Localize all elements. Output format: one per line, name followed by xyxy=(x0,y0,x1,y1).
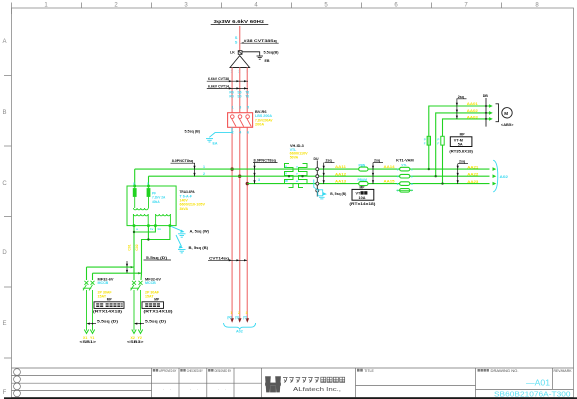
svg-text:AA01: AA01 xyxy=(467,102,478,106)
wire arrows out xyxy=(493,167,497,171)
svg-text:MP: MP xyxy=(460,133,466,137)
wire phase S xyxy=(239,68,241,320)
svg-text:R0: R0 xyxy=(229,95,233,99)
LBS labels xyxy=(255,110,273,126)
svg-text:B, 5sq (B): B, 5sq (B) xyxy=(330,192,347,196)
breaker MF32-6V left xyxy=(83,281,95,331)
svg-text:C01: C01 xyxy=(128,244,132,250)
svg-text:KT1-VAM: KT1-VAM xyxy=(396,159,414,163)
ground EA xyxy=(206,139,213,142)
breaker MF32-6V right xyxy=(130,281,142,331)
cable head terminal xyxy=(230,56,250,68)
motor M1 xyxy=(502,108,512,118)
svg-text:V: V xyxy=(285,172,287,176)
cable label CVT38 xyxy=(240,39,279,43)
left ruler ticks xyxy=(4,76,12,359)
svg-text:AA14: AA14 xyxy=(384,165,395,169)
svg-text:(RTx14x18): (RTx14x18) xyxy=(349,202,375,206)
title block labels xyxy=(153,369,573,391)
svg-text:15AT: 15AT xyxy=(98,294,107,298)
svg-text:(RTX14X18): (RTX14X18) xyxy=(144,310,174,314)
ground EB xyxy=(257,56,264,59)
breaker left labels xyxy=(98,278,115,302)
svg-text:SB60B21076A-T300: SB60B21076A-T300 xyxy=(494,389,571,398)
wire drop left branch xyxy=(86,267,88,280)
svg-text:MCCB: MCCB xyxy=(98,281,109,285)
svg-text:DRAWING NO.: DRAWING NO. xyxy=(491,369,519,373)
breaker right labels xyxy=(145,278,162,302)
fuse PBN xyxy=(359,167,368,171)
stub for 4th fuse xyxy=(397,189,414,191)
cable callout 6.6kV CVT38sq xyxy=(207,77,248,82)
node marks yellow xyxy=(230,311,247,315)
transformer labels xyxy=(180,190,206,211)
svg-text:U: U xyxy=(285,165,287,169)
svg-text:<SB3>: <SB3> xyxy=(127,340,145,344)
VT labels xyxy=(290,144,309,159)
svg-text:3φ3W 6.6kV 60Hz: 3φ3W 6.6kV 60Hz xyxy=(214,19,265,24)
svg-text:AA12: AA12 xyxy=(335,172,346,176)
node labels right branch xyxy=(131,336,142,340)
svg-text:.: . xyxy=(225,387,226,391)
svg-text:(S): (S) xyxy=(235,316,239,320)
svg-text:1n: 1n xyxy=(157,227,161,231)
wire VT earth cyan xyxy=(314,180,318,190)
svg-text:REV/MARK: REV/MARK xyxy=(554,369,573,373)
svg-text:F: F xyxy=(3,390,7,396)
svg-text:APPROVED BY: APPROVED BY xyxy=(159,369,177,373)
bottom black edge xyxy=(4,397,577,399)
wire tags yellow set1 xyxy=(335,165,346,184)
company logo xyxy=(265,376,281,392)
wire earth W cyan xyxy=(171,226,182,231)
wire risers xyxy=(429,106,490,169)
wire arrows to motor xyxy=(489,104,493,108)
svg-text:EB: EB xyxy=(265,59,270,63)
svg-text:1v: 1v xyxy=(150,227,154,231)
svg-text:15AT: 15AT xyxy=(145,294,154,298)
svg-text:40kA: 40kA xyxy=(152,200,160,204)
svg-text:1: 1 xyxy=(232,106,234,110)
svg-text:E: E xyxy=(2,321,6,327)
svg-text:F: F xyxy=(424,142,426,146)
VT winding right xyxy=(299,164,308,188)
wire arrows red xyxy=(230,318,234,323)
svg-text:AA13: AA13 xyxy=(335,180,346,184)
node phase numbers xyxy=(231,70,249,74)
wire tags yellow DB xyxy=(467,102,478,119)
node source label xyxy=(211,19,269,24)
svg-text:(R): (R) xyxy=(227,316,232,320)
svg-text:T0: T0 xyxy=(245,95,249,99)
cyan cable bundle bracket xyxy=(493,160,498,192)
svg-text:3: 3 xyxy=(239,106,241,110)
svg-text:(T): (T) xyxy=(243,316,247,320)
secondary terminals xyxy=(133,214,170,226)
cable callout 2sq #1 xyxy=(323,159,335,184)
svg-text:u: u xyxy=(136,227,138,231)
svg-text:S: S xyxy=(235,40,238,45)
svg-text:5.5sq (D): 5.5sq (D) xyxy=(97,319,119,323)
company name xyxy=(283,378,288,383)
svg-text:10A: 10A xyxy=(359,196,366,200)
svg-text:DB: DB xyxy=(483,94,489,98)
cable callout 2sq #2 xyxy=(372,159,383,184)
svg-text:.: . xyxy=(170,387,171,391)
svg-text:B: B xyxy=(2,110,6,116)
svg-text:6.6kV CVT38: 6.6kV CVT38 xyxy=(208,77,229,81)
svg-text:2: 2 xyxy=(238,311,240,315)
svg-text:3kVA: 3kVA xyxy=(180,207,189,211)
svg-text:DESIGNED BY: DESIGNED BY xyxy=(215,369,232,373)
svg-text:5.5sq (D): 5.5sq (D) xyxy=(145,319,167,323)
node u v n xyxy=(136,227,161,231)
svg-text:VT: VT xyxy=(356,192,362,196)
svg-text:TITLE: TITLE xyxy=(364,369,374,373)
VT winding left xyxy=(285,164,294,188)
wire L2 horizontal xyxy=(149,175,490,177)
node wire tags cyan xyxy=(229,91,249,99)
left ruler letters xyxy=(2,39,7,396)
svg-text:200A: 200A xyxy=(255,122,264,126)
staff cells verticals xyxy=(151,368,153,398)
transformer box xyxy=(127,186,176,226)
svg-text:.: . xyxy=(218,387,219,391)
svg-text:2sq: 2sq xyxy=(459,160,465,164)
revision rows left xyxy=(12,375,152,377)
svg-text:(RTX14X18): (RTX14X18) xyxy=(93,310,123,314)
cable callout 6.6kV CVT14sq xyxy=(207,84,248,89)
svg-text:PBAM: PBAM xyxy=(358,178,368,182)
node labels left branch xyxy=(83,336,94,340)
wire phase R xyxy=(231,68,233,320)
cable callout 2sq out xyxy=(457,160,468,184)
svg-text:.: . xyxy=(197,387,198,391)
wire drop to transformer V xyxy=(148,176,150,186)
svg-text:LK: LK xyxy=(230,51,235,55)
svg-text:3: 3 xyxy=(258,178,260,182)
secondary winding right xyxy=(156,214,171,216)
fuse riser3 xyxy=(441,136,444,145)
svg-text:W: W xyxy=(285,179,288,183)
svg-text:AA03: AA03 xyxy=(467,115,478,119)
wire incoming red xyxy=(239,26,241,51)
cable callout 5.5sq (D) left branch xyxy=(87,319,120,324)
svg-text:(RT35.6X18): (RT35.6X18) xyxy=(449,149,473,153)
wire w jumper xyxy=(134,226,155,232)
svg-text:.: . xyxy=(163,387,164,391)
svg-text:TRA3-6PA: TRA3-6PA xyxy=(180,190,195,194)
fuse PBAM xyxy=(359,182,368,186)
wire rail2 xyxy=(93,272,142,274)
svg-text:.: . xyxy=(190,387,191,391)
svg-text:B, 5sq (B): B, 5sq (B) xyxy=(189,246,209,250)
wire L3 horizontal xyxy=(247,183,489,185)
switch LBS BV-R6 xyxy=(228,113,253,128)
svg-text:AA15: AA15 xyxy=(384,180,395,184)
svg-text:S0: S0 xyxy=(237,95,241,99)
cable callout CVT14sq xyxy=(208,256,247,261)
svg-text:8.0PNCT8sq: 8.0PNCT8sq xyxy=(172,159,194,163)
fuse PF1 xyxy=(133,186,136,197)
svg-text:CHECKED BY: CHECKED BY xyxy=(187,369,204,373)
svg-text:2sq: 2sq xyxy=(458,95,464,99)
svg-text:5A: 5A xyxy=(458,143,463,147)
top ruler ticks xyxy=(12,3,502,15)
wire tags yellow set2 xyxy=(384,165,395,184)
svg-text:MP: MP xyxy=(154,298,160,302)
svg-text:5.5sq(B): 5.5sq(B) xyxy=(264,51,280,55)
nameplate box right xyxy=(142,302,164,309)
svg-text:6.6kV CVT14: 6.6kV CVT14 xyxy=(208,84,230,88)
wire LBS earth cyan xyxy=(209,127,232,137)
pin numbers 1 3 5 xyxy=(232,106,249,110)
secondary winding left xyxy=(133,214,148,216)
wire n jumper xyxy=(142,226,170,274)
svg-text:A: A xyxy=(2,39,6,45)
svg-text:1: 1 xyxy=(203,165,205,169)
svg-text:6: 6 xyxy=(247,131,249,135)
svg-text:8.0PNCT8sq: 8.0PNCT8sq xyxy=(254,158,277,162)
wire phase T xyxy=(246,68,248,320)
svg-text:AA23: AA23 xyxy=(467,180,478,184)
wire v to rail xyxy=(147,226,149,240)
svg-text:A, 5sq (W): A, 5sq (W) xyxy=(190,230,210,234)
svg-text:C: C xyxy=(2,181,7,187)
svg-text:C02: C02 xyxy=(135,244,139,250)
wire earth B cyan xyxy=(176,235,182,247)
svg-text:2sq: 2sq xyxy=(326,159,332,163)
device LK box xyxy=(230,51,242,55)
svg-text:MP: MP xyxy=(107,298,113,302)
svg-text:AA21: AA21 xyxy=(467,165,478,169)
svg-text:<SB1>: <SB1> xyxy=(80,340,98,344)
wire drop to transformer U xyxy=(134,169,136,186)
wire arrows right branch xyxy=(132,330,136,334)
bracket xyxy=(496,104,499,122)
fuse PF2 xyxy=(147,186,150,197)
svg-text:3: 3 xyxy=(246,311,248,315)
svg-text:MCCB: MCCB xyxy=(145,281,156,285)
top ruler numbers xyxy=(44,3,539,9)
svg-text:AA11: AA11 xyxy=(335,165,346,169)
svg-text:A02: A02 xyxy=(236,329,243,333)
wire to EB ground xyxy=(242,52,260,56)
cable callout 8.0PNCT8sq right xyxy=(253,158,278,184)
svg-text:4: 4 xyxy=(239,131,241,135)
svg-text:<AB5>: <AB5> xyxy=(501,123,514,127)
svg-text:F: F xyxy=(437,142,439,146)
cable callout 5.5sq (D) right branch xyxy=(134,319,167,324)
svg-text:2: 2 xyxy=(203,172,205,176)
svg-text:A02: A02 xyxy=(500,175,509,179)
wire rail1 xyxy=(87,266,135,268)
svg-text:2sq: 2sq xyxy=(374,159,380,163)
node junction xyxy=(133,231,135,233)
primary winding xyxy=(135,197,149,209)
svg-text:VTL: VTL xyxy=(401,163,407,167)
svg-text:50VA: 50VA xyxy=(290,155,299,159)
svg-text:u: u xyxy=(296,165,298,169)
svg-text:D: D xyxy=(2,250,7,256)
svg-text:#38 CVT38Sq: #38 CVT38Sq xyxy=(244,39,278,43)
svg-text:5: 5 xyxy=(247,106,249,110)
node taps on bus xyxy=(230,167,233,170)
VT terminal tags xyxy=(285,165,299,184)
wire arrows left branch xyxy=(84,330,88,334)
node tags RST cyan xyxy=(227,316,247,320)
disconnect switch DS xyxy=(235,35,238,45)
cable callout 5.5sq (D) center xyxy=(126,256,171,274)
svg-text:ALfatech Inc.,: ALfatech Inc., xyxy=(293,387,342,393)
wire drop right branch xyxy=(133,267,135,280)
svg-text:M: M xyxy=(504,111,508,116)
wire tags yellow out xyxy=(467,165,478,184)
cable callout 2sq DB xyxy=(456,95,467,119)
revision circles xyxy=(14,369,21,397)
svg-text:—A01: —A01 xyxy=(526,379,551,388)
svg-text:1: 1 xyxy=(230,311,232,315)
nameplate box left xyxy=(94,302,124,309)
svg-text:AA02: AA02 xyxy=(467,109,478,113)
wire L1 horizontal xyxy=(135,168,490,170)
svg-text:5.5sq (B): 5.5sq (B) xyxy=(185,130,201,134)
svg-text:CVT14sq: CVT14sq xyxy=(209,256,230,260)
svg-text:PBN: PBN xyxy=(359,164,366,168)
cable callout 8.0PNCT8sq left xyxy=(171,159,196,176)
wire u down xyxy=(133,226,135,268)
title block top line xyxy=(12,367,574,369)
fuse riser1 xyxy=(427,136,430,145)
svg-text:EA: EA xyxy=(213,142,218,146)
fuse labels xyxy=(152,192,166,204)
svg-text:AA22: AA22 xyxy=(467,172,478,176)
title cell xyxy=(355,368,357,398)
pin numbers 2 4 6 xyxy=(232,131,249,135)
node junction xyxy=(147,238,149,240)
svg-text:DU: DU xyxy=(314,157,320,161)
svg-text:5.5sq (D): 5.5sq (D) xyxy=(146,256,168,260)
cable bundle underbrace cyan xyxy=(224,323,256,330)
